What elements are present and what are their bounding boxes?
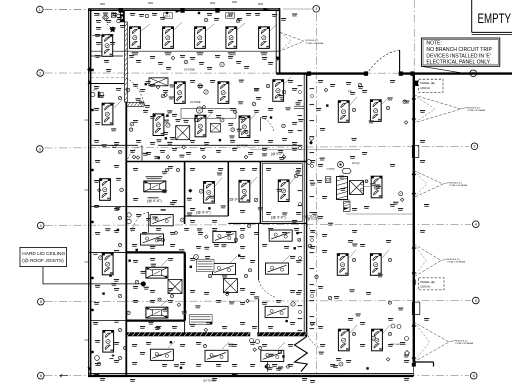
svg-text:5: 5 [40,299,42,304]
svg-text:ELECTRICAL PANEL ONLY.: ELECTRICAL PANEL ONLY. [426,60,490,66]
svg-text:ATS: ATS [94,89,99,92]
svg-text:24-TONE: 24-TONE [237,145,248,148]
svg-text:24-TONE: 24-TONE [184,68,195,72]
svg-text:24-TONE: 24-TONE [190,101,201,104]
svg-text:TOTAL 4 SCHEMA: TOTAL 4 SCHEMA [467,109,485,112]
svg-text:1: 1 [39,7,41,12]
svg-text:NOTE:: NOTE: [426,41,442,47]
svg-text:(@ 9'-0"): (@ 9'-0") [147,199,162,203]
svg-text:(@ 9'-0"): (@ 9'-0") [229,198,244,202]
svg-text:TOTAL 4 SCHEMA: TOTAL 4 SCHEMA [447,261,465,264]
svg-text:NO BRANCH CIRCUIT TRIP: NO BRANCH CIRCUIT TRIP [426,47,492,53]
svg-text:TOTAL 4 SCHEMA: TOTAL 4 SCHEMA [306,42,324,45]
svg-text:1 WK: 1 WK [155,353,162,357]
svg-text:AC: AC [348,89,352,93]
svg-text:5: 5 [475,298,477,303]
svg-text:2: 2 [39,70,41,75]
svg-text:MODULE (C): MODULE (C) [455,340,468,342]
svg-text:(24 TONE): (24 TONE) [203,379,216,383]
svg-text:6: 6 [40,373,42,378]
svg-text:6: 6 [473,373,475,378]
svg-text:(@ ROOF JOISTS): (@ ROOF JOISTS) [22,258,64,264]
svg-text:MODULE (C): MODULE (C) [447,259,460,261]
svg-text:(V-MAX): (V-MAX) [327,168,336,171]
svg-text:(@ 9'-0"): (@ 9'-0") [306,217,319,221]
svg-text:AC: AC [98,14,102,17]
svg-text:3: 3 [473,144,475,149]
svg-text:AC (2): AC (2) [352,161,360,165]
svg-text:MODULE (C): MODULE (C) [306,40,319,42]
svg-text:EMPTY: EMPTY [478,11,512,26]
svg-text:(200 A): (200 A) [420,285,430,289]
svg-text:DEVICES INSTALLED IN 'E': DEVICES INSTALLED IN 'E' [426,54,490,60]
svg-text:(@ 9'-0"): (@ 9'-0") [196,211,211,215]
svg-text:1 WK: 1 WK [210,354,217,358]
svg-text:(@ 9'-0"): (@ 9'-0") [271,216,286,220]
svg-text:AC-1: AC-1 [165,14,171,18]
svg-text:1: 1 [315,6,317,11]
svg-text:(200 A): (200 A) [420,86,430,90]
svg-text:TOTAL 4 SCHEMA: TOTAL 4 SCHEMA [449,184,467,187]
svg-text:C-SEE ALL: C-SEE ALL [340,198,352,201]
svg-text:MODULE (C): MODULE (C) [467,107,480,109]
svg-text:MODULE (C): MODULE (C) [449,182,462,184]
svg-text:3: 3 [39,146,41,151]
svg-text:PANEL (E): PANEL (E) [420,81,434,85]
svg-text:HARD LID CEILING: HARD LID CEILING [22,251,65,257]
svg-text:TOTAL 4 SCHEMA: TOTAL 4 SCHEMA [455,342,473,345]
svg-text:PANEL (E): PANEL (E) [420,280,434,284]
